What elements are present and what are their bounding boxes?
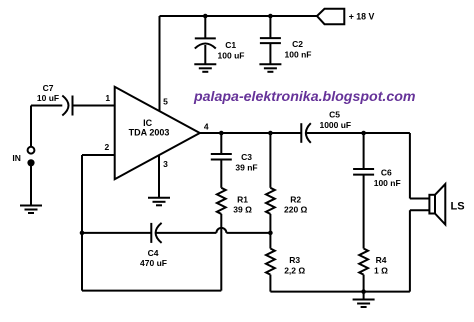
wire speaker right vertical top (409, 133, 411, 199)
wire R3 bottom (269, 275, 271, 292)
value label C1 (218, 40, 245, 61)
pin 2 label (105, 142, 110, 152)
svg-text:C5: C5 (329, 110, 340, 120)
svg-text:39 nF: 39 nF (235, 162, 257, 172)
ground below C1 (194, 64, 216, 72)
value label C4 (140, 248, 167, 268)
ground below IN (20, 206, 42, 214)
wire hop over R1 branch (216, 228, 226, 233)
svg-text:1000 uF: 1000 uF (319, 120, 351, 130)
ground below pin 3 (148, 198, 170, 206)
node output C3 junction (219, 131, 224, 136)
svg-text:R2: R2 (290, 194, 301, 204)
node IN ground dot (27, 159, 34, 166)
svg-text:TDA 2003: TDA 2003 (129, 127, 170, 137)
svg-text:1 Ω: 1 Ω (374, 266, 388, 276)
svg-text:C2: C2 (292, 39, 303, 49)
wire output pin 4 to C5 (200, 132, 301, 134)
value label R2 (284, 194, 308, 214)
wire R2 top stub (269, 133, 271, 188)
speaker LS (429, 184, 445, 225)
node ground junction (361, 289, 366, 294)
svg-text:470 uF: 470 uF (140, 258, 167, 268)
wire R4 bottom (363, 275, 365, 292)
svg-text:3: 3 (163, 159, 168, 169)
wire IN dot to ground (30, 164, 32, 206)
pin 3 label (163, 159, 168, 169)
svg-text:LS: LS (451, 200, 465, 212)
value label R4 (374, 255, 388, 276)
svg-text:R1: R1 (237, 194, 248, 204)
wire C5 to speaker branch (307, 132, 410, 134)
capacitor C4 (151, 223, 161, 243)
capacitor C5 (301, 123, 311, 143)
watermark palapa-elektronika.blogspot.com (193, 89, 416, 105)
wire pin 3 (158, 155, 160, 198)
svg-text:1: 1 (105, 93, 110, 103)
svg-text:100 nF: 100 nF (285, 50, 312, 60)
pin 1 label (105, 93, 110, 103)
wire C2 top stub (269, 16, 271, 38)
wire C6 top stub (363, 133, 365, 169)
node output R2 junction (268, 131, 273, 136)
value label R1 (233, 194, 252, 214)
svg-text:5: 5 (163, 97, 168, 107)
net label + 18 V (349, 12, 375, 22)
svg-text:R3: R3 (289, 255, 300, 265)
ground main (353, 300, 375, 308)
pin 4 label (204, 122, 209, 132)
svg-text:C3: C3 (241, 152, 252, 162)
wire C3 to R1 (220, 160, 222, 188)
svg-text:100 uF: 100 uF (218, 51, 245, 61)
node R2/R3 junction (268, 231, 273, 236)
svg-text:C7: C7 (43, 83, 54, 93)
svg-text:C1: C1 (225, 40, 236, 50)
wire C1 top stub (204, 16, 206, 38)
value label C2 (285, 39, 312, 60)
resistor R2 (266, 188, 275, 214)
wire R2 to junction (269, 214, 271, 233)
svg-text:C6: C6 (381, 168, 392, 178)
value label IC TDA 2003 (129, 118, 170, 138)
wire C4 to hop (157, 232, 217, 234)
resistor R4 (359, 249, 368, 275)
net label IN (12, 153, 21, 163)
capacitor C3 (211, 154, 232, 160)
wire R1 bottom vertical (220, 214, 222, 291)
wire feedback left vertical (81, 155, 83, 291)
capacitor C7 (62, 96, 72, 116)
node C4 left junction (80, 231, 85, 236)
wire hop to R2/R3 junction (226, 232, 270, 234)
capacitor C2 (260, 38, 281, 64)
svg-text:palapa-elektronika.blogspot.co: palapa-elektronika.blogspot.com (193, 89, 416, 105)
svg-text:+ 18 V: + 18 V (349, 12, 375, 22)
net label LS (451, 200, 465, 212)
wire speaker top stub (410, 198, 430, 200)
wire speaker bottom stub (410, 209, 430, 211)
resistor R3 (266, 249, 275, 275)
svg-text:100 nF: 100 nF (374, 178, 401, 188)
svg-text:10 uF: 10 uF (37, 93, 59, 103)
svg-text:IC: IC (143, 118, 153, 128)
svg-text:4: 4 (204, 122, 209, 132)
wire C4 left (82, 232, 151, 234)
op-amp U1 TDA2003 triangle (115, 87, 200, 179)
svg-text:R4: R4 (376, 255, 387, 265)
terminal IN open circle (30, 106, 32, 147)
capacitor C6 (353, 169, 374, 175)
wire pin 5 to rail (159, 16, 161, 111)
svg-text:2: 2 (105, 142, 110, 152)
value label C3 (235, 152, 257, 172)
wire feedback bottom rail (82, 290, 221, 292)
connector +18V plug (317, 9, 344, 24)
wire junction to R3 (269, 233, 271, 249)
svg-text:IN: IN (12, 153, 21, 163)
value label C6 (374, 168, 401, 188)
wire top supply rail (160, 15, 318, 17)
wire C7 to pin 1 (73, 105, 115, 107)
wire speaker right vertical bottom (409, 210, 411, 291)
wire C3 top stub (220, 133, 222, 154)
value label C7 (37, 83, 59, 103)
svg-text:2,2 Ω: 2,2 Ω (284, 266, 305, 276)
svg-text:220 Ω: 220 Ω (284, 204, 308, 214)
node C2 top junction (268, 14, 273, 19)
capacitor C1 (195, 38, 216, 64)
svg-text:C4: C4 (148, 248, 159, 258)
svg-text:39 Ω: 39 Ω (233, 204, 252, 214)
wire C6 to R4 (363, 175, 365, 249)
node C6 junction (361, 131, 366, 136)
value label C5 (319, 110, 351, 130)
node C1 top junction (203, 14, 208, 19)
value label R3 (284, 255, 305, 276)
wire input to C7 (31, 105, 62, 107)
resistor R1 (217, 188, 226, 214)
ground below C2 (259, 64, 281, 72)
wire bottom right ground rail (270, 291, 410, 293)
wire pin 2 (82, 154, 115, 156)
pin 5 label (163, 97, 168, 107)
wire ground stub (363, 292, 365, 300)
